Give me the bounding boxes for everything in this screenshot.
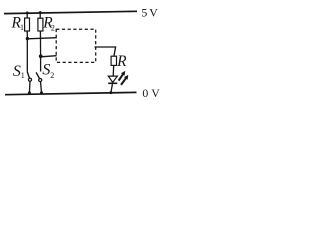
wire LED to 0V rail	[111, 84, 113, 93]
switch S1 contact circle	[28, 78, 31, 81]
svg-text:2: 2	[50, 71, 54, 80]
wire 0V rail	[5, 92, 137, 94]
svg-text:S: S	[13, 63, 21, 80]
svg-text:S: S	[42, 61, 50, 78]
wire from J2 to dashed box input 2	[41, 56, 57, 57]
wire from box output to resistor R	[95, 47, 116, 56]
wire column 2 to switch S2	[40, 58, 42, 72]
svg-text:1: 1	[21, 71, 25, 80]
svg-text:1: 1	[20, 23, 24, 32]
wire 5V rail	[4, 11, 137, 13]
node junction dot J1	[26, 37, 29, 40]
resistor R1	[25, 18, 30, 31]
wire S2 to 0V rail	[41, 82, 42, 93]
node rail dot at S2 bottom	[40, 91, 43, 94]
node junction dot J2	[39, 54, 43, 58]
wire from J1 to dashed box input 1	[27, 38, 56, 39]
wire R1 bottom stub	[26, 31, 28, 38]
wire R2 top stub	[39, 13, 41, 19]
svg-text:V: V	[151, 86, 160, 100]
svg-text:R: R	[116, 53, 127, 70]
switch S1 blade	[27, 72, 29, 79]
LED anode triangle	[108, 76, 117, 82]
node rail dot at LED bottom	[109, 91, 112, 94]
resistor R2	[38, 18, 43, 31]
node rail dot at R2 top	[39, 11, 42, 14]
node rail dot at R1 top	[26, 11, 29, 14]
wire R2 bottom stub	[39, 31, 41, 55]
node rail dot at S1 bottom	[28, 91, 31, 94]
resistor R	[111, 56, 116, 65]
svg-text:2: 2	[51, 24, 55, 33]
LED emission arrow 2	[121, 78, 126, 85]
svg-text:0: 0	[142, 86, 148, 100]
svg-text:5: 5	[141, 6, 147, 20]
wire column 1 to switch S1	[26, 39, 28, 71]
wire S1 to 0V rail	[28, 81, 31, 93]
switch S2 blade	[36, 72, 40, 78]
LED emission arrow 1	[119, 74, 123, 80]
wire R to LED	[112, 65, 115, 76]
wire R1 top stub	[26, 13, 28, 18]
switch S2 contact circle	[39, 78, 42, 81]
LED cathode bar	[108, 82, 117, 84]
svg-text:V: V	[149, 6, 158, 20]
black box (dashed)	[56, 29, 95, 62]
